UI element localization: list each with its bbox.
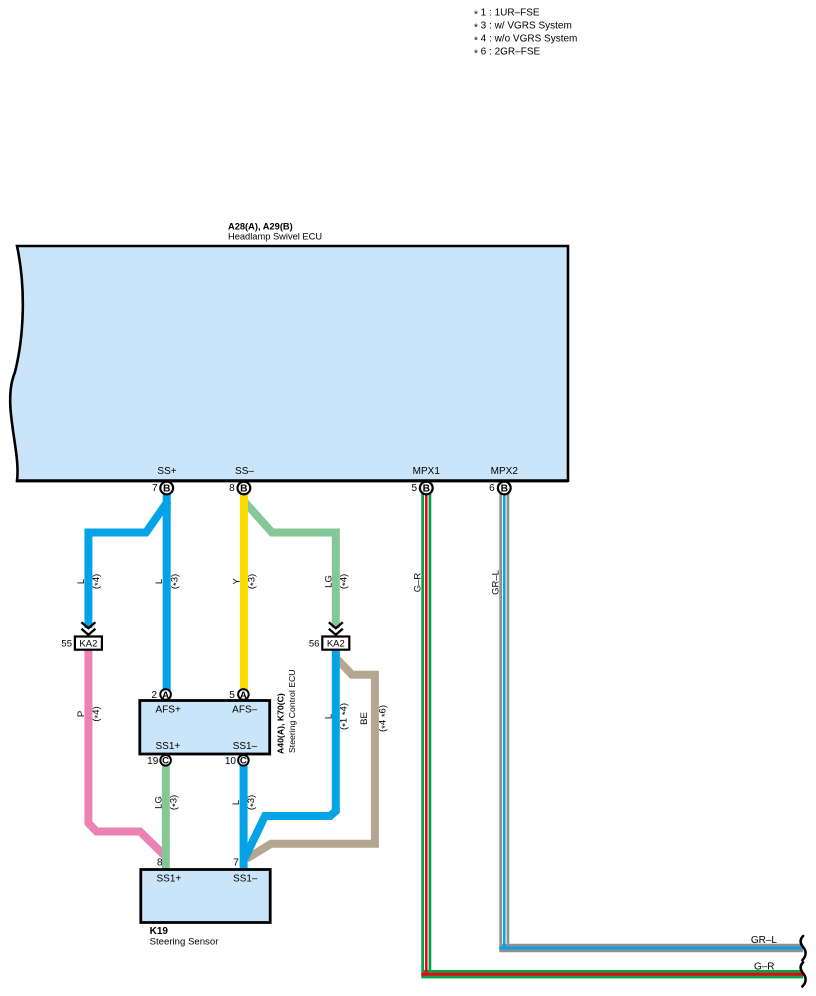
- svg-text:AFS+: AFS+: [156, 705, 181, 716]
- svg-text:5: 5: [229, 690, 235, 701]
- break symbol G-R: [801, 962, 806, 986]
- connector KA2 #55 chevrons: [81, 622, 95, 637]
- break symbol GR-L: [801, 936, 806, 960]
- svg-text:L: L: [323, 714, 334, 719]
- pin 10 (C) SS1-: [225, 755, 249, 767]
- svg-text:*​ 6 : 2GR–FSE: *​ 6 : 2GR–FSE: [474, 47, 540, 60]
- svg-text:(*​4): (*​4): [91, 574, 104, 589]
- wire label GR-L: [490, 570, 501, 595]
- svg-text:AFS–: AFS–: [232, 705, 257, 716]
- wire L (*3) blue Steering Control ECU pin10 to Steering Sensor pin7: [240, 764, 248, 869]
- svg-text:Y: Y: [231, 578, 242, 585]
- svg-text:(*​4): (*​4): [91, 706, 104, 721]
- svg-text:Steering Control ECU: Steering Control ECU: [287, 669, 297, 753]
- svg-text:7: 7: [152, 483, 158, 494]
- svg-text:G–R: G–R: [754, 961, 775, 972]
- wire L (*3) blue SS+ pin7 to Steering Control ECU pin2: [163, 490, 171, 690]
- wire label P (*4): [76, 706, 104, 721]
- wire label LG (*4): [323, 574, 351, 589]
- svg-text:LG: LG: [153, 796, 164, 809]
- pin 7 (B) SS+: [152, 482, 173, 495]
- connector KA2 #56 box: [309, 637, 349, 650]
- svg-text:L: L: [154, 579, 165, 584]
- wire BE (*4 *6) tan branch to Steering Sensor pin7: [247, 659, 375, 859]
- svg-text:KA2: KA2: [327, 639, 345, 650]
- svg-text:(*​4 *​6): (*​4 *​6): [378, 705, 391, 732]
- wire LG (*3) green Steering Control ECU pin19 to Steering Sensor pin8: [162, 764, 170, 869]
- pin 8 (B) SS-: [229, 482, 250, 495]
- svg-text:B: B: [240, 484, 247, 495]
- svg-text:SS1+: SS1+: [157, 874, 182, 885]
- svg-text:A40(A), K70(C): A40(A), K70(C): [276, 693, 286, 754]
- svg-text:2: 2: [151, 690, 157, 701]
- ECU A40(A)/K70(C) Steering Control ECU box: [140, 701, 270, 755]
- svg-text:L: L: [76, 579, 87, 584]
- svg-text:*​ 1 : 1UR–FSE: *​ 1 : 1UR–FSE: [474, 8, 540, 21]
- svg-text:(*​1 *​4): (*​1 *​4): [338, 703, 351, 730]
- wire GR-L gray/blue MPX2 pin6 to right edge: [499, 492, 803, 948]
- pin 5 (A) AFS-: [229, 689, 248, 701]
- svg-text:MPX2: MPX2: [491, 466, 519, 477]
- svg-text:6: 6: [489, 483, 495, 494]
- svg-text:8: 8: [157, 858, 163, 869]
- svg-text:Steering Sensor: Steering Sensor: [150, 936, 220, 947]
- svg-text:GR–L: GR–L: [751, 935, 778, 946]
- wire P (*4) pink KA2 55 to Steering Sensor pin8: [88, 648, 165, 857]
- svg-text:A: A: [240, 690, 247, 701]
- svg-text:B: B: [501, 484, 508, 495]
- svg-text:SS1+: SS1+: [156, 741, 181, 752]
- wire label LG (*3): [153, 795, 181, 810]
- svg-text:(*​4): (*​4): [338, 574, 351, 589]
- svg-text:LG: LG: [323, 575, 334, 588]
- K19 label: [150, 926, 220, 947]
- svg-text:*​ 3 : w/ VGRS System: *​ 3 : w/ VGRS System: [474, 21, 572, 34]
- svg-text:55: 55: [61, 638, 72, 649]
- svg-text:C: C: [162, 756, 169, 767]
- svg-text:5: 5: [412, 483, 418, 494]
- connector KA2 #55 box: [61, 637, 101, 650]
- connector KA2 #56 chevrons: [329, 622, 343, 637]
- wire label L (*1 *4): [323, 703, 351, 730]
- wire label Y (*3): [231, 574, 259, 589]
- svg-text:BE: BE: [359, 712, 370, 725]
- svg-text:(*​3): (*​3): [168, 795, 181, 810]
- svg-text:B: B: [423, 484, 430, 495]
- sensor K19 Steering Sensor box: [141, 870, 270, 923]
- svg-text:KA2: KA2: [79, 639, 97, 650]
- svg-text:GR–L: GR–L: [490, 570, 501, 595]
- svg-text:*​ 4 : w/o VGRS System: *​ 4 : w/o VGRS System: [474, 34, 577, 47]
- svg-text:MPX1: MPX1: [413, 466, 441, 477]
- svg-text:19: 19: [147, 756, 159, 767]
- svg-text:56: 56: [309, 638, 320, 649]
- wire G-R green/red MPX1 pin5 to right edge: [421, 492, 803, 974]
- wire L (*1 *4) blue KA2 56 to Steering Sensor pin7: [245, 649, 336, 859]
- svg-text:P: P: [76, 711, 87, 717]
- svg-text:SS1–: SS1–: [233, 874, 258, 885]
- svg-text:L: L: [231, 800, 242, 805]
- wire label BE (*4 *6): [359, 705, 391, 732]
- svg-text:B: B: [163, 484, 170, 495]
- wire L (*4) blue branch SS+ to connector KA2 55: [88, 501, 168, 628]
- wire label L (*4): [76, 574, 104, 589]
- svg-text:C: C: [240, 756, 247, 767]
- svg-text:10: 10: [225, 756, 237, 767]
- svg-text:SS1–: SS1–: [233, 741, 258, 752]
- wire LG (*4) green branch SS- to connector KA2 56: [243, 500, 336, 628]
- svg-text:(*​3): (*​3): [246, 795, 259, 810]
- svg-text:(*​3): (*​3): [169, 574, 182, 589]
- wire label L (*3): [154, 574, 182, 589]
- svg-text:(*​3): (*​3): [247, 574, 260, 589]
- ECU A28(A)/A29(B) Headlamp Swivel ECU box: [10, 246, 568, 481]
- ECU A40/K70 rotated label: [276, 669, 298, 754]
- svg-text:SS+: SS+: [157, 466, 176, 477]
- pin 6 (B) MPX2: [489, 482, 511, 495]
- pin 5 (B) MPX1: [412, 482, 433, 495]
- svg-text:A: A: [162, 690, 169, 701]
- svg-text:Headlamp Swivel ECU: Headlamp Swivel ECU: [228, 232, 322, 242]
- pin 19 (C) SS1+: [147, 755, 171, 767]
- ECU A28/A29 label: [228, 222, 322, 242]
- svg-text:A28(A), A29(B): A28(A), A29(B): [228, 222, 293, 232]
- wire label G-R: [412, 573, 423, 593]
- pin 2 (A) AFS+: [151, 689, 170, 701]
- svg-text:SS–: SS–: [235, 466, 254, 477]
- svg-text:7: 7: [233, 857, 239, 868]
- svg-text:8: 8: [229, 483, 235, 494]
- svg-text:G–R: G–R: [412, 573, 423, 593]
- wire label L (*3) lower: [231, 795, 259, 810]
- wire Y (*3) yellow SS- pin8 to Steering Control ECU pin5: [240, 490, 248, 690]
